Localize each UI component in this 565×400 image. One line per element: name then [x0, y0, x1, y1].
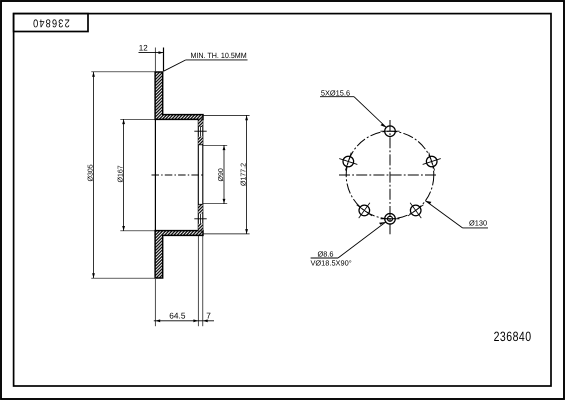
svg-text:Ø8.6: Ø8.6 [318, 250, 334, 259]
svg-text:VØ18.5X90°: VØ18.5X90° [311, 259, 352, 268]
svg-text:Ø90: Ø90 [217, 168, 225, 181]
svg-text:64.5: 64.5 [169, 310, 186, 320]
svg-text:5XØ15.6: 5XØ15.6 [321, 88, 350, 97]
svg-text:236840: 236840 [494, 329, 532, 344]
svg-text:MIN. TH. 10.5MM: MIN. TH. 10.5MM [191, 51, 247, 60]
svg-text:Ø305: Ø305 [86, 164, 94, 181]
svg-text:Ø167: Ø167 [117, 165, 125, 182]
svg-text:Ø177.2: Ø177.2 [240, 163, 248, 186]
svg-text:Ø130: Ø130 [469, 219, 487, 228]
svg-text:12: 12 [139, 44, 148, 53]
svg-text:236840: 236840 [32, 17, 70, 29]
svg-text:7: 7 [206, 311, 211, 321]
